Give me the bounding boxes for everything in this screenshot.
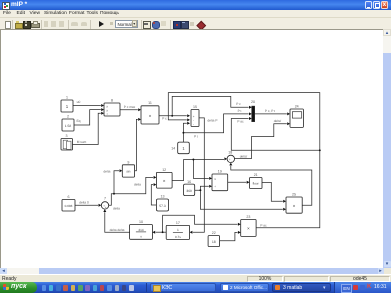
- toolbar icon: stop simulation (disabled): [110, 22, 114, 26]
- svg-text:0.698: 0.698: [65, 204, 73, 208]
- junction slip s branch: [162, 231, 164, 233]
- svg-text:P ac: P ac: [237, 119, 244, 123]
- svg-text:delta': delta': [274, 119, 282, 123]
- toolbar icon: grey tool (disabled): [190, 22, 195, 27]
- svg-text:delta': delta': [240, 154, 248, 158]
- wire 360 to B19: [195, 186, 209, 190]
- svg-text:0.7s: 0.7s: [175, 234, 181, 238]
- vertical scrollbar: [383, 29, 391, 268]
- wire B25 loop to B18: [231, 165, 312, 205]
- svg-text:7: 7: [104, 196, 106, 200]
- simulink model icon: [2, 2, 10, 10]
- svg-text:sin: sin: [126, 169, 130, 173]
- svg-text:360: 360: [186, 189, 192, 193]
- svg-text:8: 8: [111, 98, 113, 102]
- svg-text:1.58: 1.58: [65, 123, 72, 127]
- toolbar icon: disabled: [161, 21, 167, 26]
- wire delta 0: B6 to B7: [75, 204, 98, 206]
- svg-text:-: -: [231, 159, 232, 163]
- wire 57.3: B13 to B12: [151, 184, 156, 204]
- wire P ac loop: B23 to B15: [168, 92, 319, 227]
- svg-text:24: 24: [295, 104, 299, 108]
- svg-text:22: 22: [212, 231, 216, 235]
- title bar: [0, 0, 391, 10]
- wire P t: B14 to B15: [183, 123, 186, 142]
- system tray: [334, 282, 391, 293]
- svg-text:2: 2: [67, 114, 69, 118]
- svg-text:×: ×: [247, 227, 250, 232]
- toolbar icon: library browser: [143, 21, 151, 29]
- svg-text:17: 17: [176, 221, 180, 225]
- constant block 13 (57.3, output left): [156, 199, 168, 211]
- junction delta branch: [113, 192, 115, 194]
- junction P c branch: [171, 114, 173, 116]
- product block 25 (360*floor): [286, 197, 302, 213]
- svg-text:12: 12: [162, 167, 166, 171]
- task button: folder: [150, 283, 216, 293]
- product block 12 (delta * 57.3): [156, 172, 172, 188]
- svg-text:P t: P t: [238, 109, 242, 113]
- toolbar icon: cut (disabled): [44, 21, 48, 27]
- wire B19 to floor: [228, 181, 247, 183]
- wire mux to scope: [255, 112, 287, 114]
- svg-text:delta P: delta P: [208, 118, 218, 122]
- svg-text:-: -: [193, 121, 194, 125]
- svg-text:13: 13: [161, 194, 165, 198]
- svg-text:18: 18: [228, 150, 232, 154]
- svg-text:P c, P t: P c, P t: [265, 108, 275, 112]
- svg-text:floor: floor: [253, 181, 259, 185]
- wire P ac branch to mux: [231, 118, 319, 150]
- svg-text:P c: P c: [162, 116, 167, 120]
- svg-text:+: +: [193, 114, 195, 118]
- svg-text:Eq: Eq: [76, 118, 80, 122]
- toolbar icon: model browser: [152, 21, 160, 29]
- mux block 20: [252, 106, 255, 121]
- wire floor to B25: [262, 182, 283, 201]
- wire P c max: B8 to B11: [120, 108, 138, 110]
- svg-text:10: 10: [139, 220, 143, 224]
- junction P t branch: [182, 131, 184, 133]
- junction 360 branch: [199, 189, 201, 191]
- horizontal scrollbar: [0, 268, 383, 275]
- toolbar icon: dark navy tool: [181, 21, 189, 29]
- quick launch icons: [42, 285, 47, 291]
- wire P c: B11 to B15: [159, 114, 187, 116]
- svg-text:u0: u0: [77, 99, 81, 103]
- wire P t branch to mux: [183, 113, 248, 132]
- svg-text:15: 15: [193, 105, 197, 109]
- svg-text:25: 25: [292, 192, 296, 196]
- wire Eq: B2 to B8: [74, 109, 101, 124]
- svg-text:P t: P t: [194, 134, 198, 138]
- wire P c feedback to mux: [172, 96, 248, 115]
- toolbar combo: Normal: [115, 20, 138, 28]
- window buttons: [365, 1, 372, 9]
- divide block 19 (x / 360): [212, 174, 228, 191]
- svg-text:9: 9: [127, 160, 129, 164]
- wire slip s to B23: [163, 215, 238, 232]
- wire delta P: B15 to B17: [193, 117, 205, 231]
- svg-text:14: 14: [171, 146, 175, 150]
- svg-text:delta delta: delta delta: [110, 227, 125, 231]
- wire delta delta: B10 to B7: [105, 212, 130, 232]
- junction delta deg branch: [192, 158, 194, 160]
- svg-text:÷: ÷: [214, 184, 216, 188]
- product block 8 (u0*Eq/Xd): [104, 103, 120, 116]
- toolbar icon: new model: [5, 21, 12, 29]
- svg-text:21: 21: [254, 173, 258, 177]
- svg-text:P ac: P ac: [260, 223, 267, 227]
- scope block 24: [290, 109, 303, 127]
- toolbar icon: print: [31, 23, 40, 29]
- constant block 16 (360): [184, 184, 195, 196]
- toolbar icon: undo (disabled): [71, 22, 78, 26]
- toolbar icon: redo (disabled): [81, 22, 88, 26]
- sum block 15 (delta P): [191, 109, 199, 126]
- svg-text:18: 18: [212, 240, 216, 244]
- toolbar icon: paste (disabled): [59, 21, 65, 27]
- svg-text:16: 16: [187, 179, 191, 183]
- wire B17 to B10: [156, 231, 167, 233]
- svg-text:+: +: [105, 205, 107, 209]
- sin block 9: [122, 164, 134, 176]
- task button: Microsoft Office: [220, 283, 269, 293]
- svg-text:÷: ÷: [106, 112, 108, 116]
- start button: [0, 282, 37, 293]
- port arrowheads: [99, 104, 291, 234]
- wire delta deg to B18: [172, 159, 224, 180]
- constant block 22 (value 18): [208, 235, 220, 246]
- svg-text:23: 23: [246, 215, 250, 219]
- svg-text:×: ×: [149, 114, 152, 119]
- status bar: [0, 274, 391, 282]
- svg-text:delta: delta: [104, 169, 111, 173]
- svg-text:314: 314: [138, 227, 143, 231]
- toolbar icon: copy (disabled): [51, 21, 56, 27]
- svg-text:delta 0: delta 0: [79, 200, 89, 204]
- svg-text:1: 1: [177, 228, 179, 232]
- toolbar icon: red debug tool: [196, 20, 205, 29]
- transfer fcn block 17 (1/0.7s, flipped): [166, 225, 189, 239]
- constant block 1 (value 1): [61, 100, 73, 112]
- toolbar icon: save: [23, 21, 31, 29]
- wire sin to B11: [135, 119, 138, 170]
- constant block 2 (value 1.58): [62, 119, 74, 131]
- sum circle 18 (delta mod 360): [227, 155, 234, 162]
- sum circle 7 (delta0 + delta delta): [101, 201, 108, 208]
- toolbar icon: open: [15, 23, 23, 29]
- task button: matlab (active): [272, 283, 331, 293]
- wire Xd sum: B3 to B8: [73, 113, 101, 144]
- wire delta: B7 to sin: [109, 170, 120, 205]
- wire delta to B12: [114, 177, 153, 193]
- taskbar: [0, 282, 391, 293]
- svg-text:11: 11: [148, 101, 152, 105]
- svg-text:M sum: M sum: [77, 140, 87, 144]
- svg-text:×: ×: [293, 204, 296, 209]
- product block 23 (P ac): [241, 219, 256, 236]
- svg-text:20: 20: [251, 100, 255, 104]
- svg-text:6: 6: [68, 195, 70, 199]
- svg-text:delta: delta: [134, 182, 141, 186]
- canvas: [0, 29, 383, 268]
- wire u0: B1 to B8: [73, 104, 101, 106]
- constant block 6 (value 0.698): [62, 199, 75, 211]
- menu bar: [0, 10, 391, 18]
- junction P ac branch: [319, 149, 321, 151]
- svg-text:1: 1: [66, 95, 68, 99]
- source block 3 (two-rect icon): [61, 138, 73, 150]
- transfer fcn block 10 (314/s, flipped): [130, 224, 153, 239]
- wire 18: B22 to B23: [220, 232, 238, 240]
- svg-text:19: 19: [218, 169, 222, 173]
- wire 360 to B25: [200, 190, 282, 209]
- product block 11 (x): [141, 105, 159, 123]
- svg-text:P c: P c: [236, 101, 241, 105]
- wire delta deg to B19: [193, 159, 208, 178]
- svg-text:3: 3: [66, 133, 68, 137]
- svg-text:57.3: 57.3: [159, 204, 166, 208]
- constant block 14 (value 1, output on top): [178, 142, 190, 154]
- wire delta' to scope: [234, 123, 286, 158]
- svg-text:×: ×: [163, 179, 166, 184]
- toolbar icon: library build tool: [173, 21, 181, 29]
- toolbar icon: start simulation: [99, 21, 104, 27]
- toolbar: [0, 18, 391, 29]
- floor block 21: [250, 177, 263, 188]
- svg-text:delta: delta: [113, 206, 120, 210]
- svg-text:P c max: P c max: [124, 105, 136, 109]
